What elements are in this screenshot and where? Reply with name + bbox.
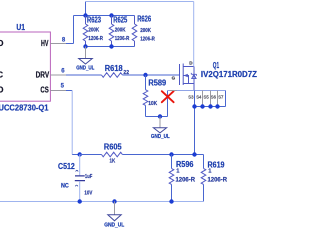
capacitor C512 bottom lead: [79, 181, 81, 202]
node bottom rail / C512: [78, 199, 82, 203]
transistor Q1 channel bar: [182, 64, 184, 86]
wire HV pin to riser: [66, 43, 74, 45]
svg-text:R618: R618: [105, 64, 123, 73]
svg-text:O: O: [0, 86, 3, 95]
node C512 top: [78, 152, 82, 156]
pin stub S6: [217, 91, 219, 106]
resistor R618: [102, 73, 123, 78]
node S3 rail: [192, 104, 196, 108]
wire riser to top edge: [85, 2, 87, 16]
svg-text:CS: CS: [40, 86, 49, 95]
node bottom rail / ground: [112, 199, 116, 203]
svg-text:5: 5: [61, 84, 65, 90]
wire top edge horizontal: [86, 1, 194, 3]
wire CS vertical drop: [71, 91, 73, 155]
node S4 rail: [200, 104, 204, 108]
svg-text:HV: HV: [41, 39, 49, 48]
transistor Q1 body stub with arrow: [183, 76, 188, 84]
svg-text:1uF: 1uF: [85, 174, 93, 180]
svg-text:1206-R: 1206-R: [176, 177, 196, 183]
svg-text:1206-R: 1206-R: [140, 37, 155, 43]
transistor Q1 source stub: [183, 83, 194, 85]
ground GND_UL under resistors: [85, 47, 87, 59]
svg-text:R589: R589: [148, 79, 166, 88]
svg-text:R605: R605: [104, 143, 122, 152]
cap mark lower: [75, 185, 78, 186]
node bottom rail / R596: [169, 199, 173, 203]
wire source column down: [194, 91, 196, 155]
svg-text:200K: 200K: [140, 28, 151, 34]
ground GND_UL mid: [159, 117, 161, 128]
capacitor C512 plates: [75, 176, 85, 181]
wire source pins bottom rail: [195, 106, 226, 108]
wire mid rail to R605: [80, 154, 102, 156]
resistor R589: [145, 75, 147, 90]
svg-text:1206-R: 1206-R: [88, 36, 103, 42]
ground GND_UL bottom: [114, 202, 116, 215]
wire CS corner to C512 node: [72, 154, 80, 156]
node mid rail / R596: [169, 152, 173, 156]
svg-text:GND_UL: GND_UL: [104, 223, 125, 229]
svg-text:200K: 200K: [115, 27, 126, 33]
svg-text:1206-R: 1206-R: [115, 36, 130, 42]
wire source bus: [168, 90, 226, 92]
body diode of Q1: [191, 73, 196, 79]
svg-text:U1: U1: [16, 23, 25, 32]
IC U1 UCC28730-Q1 body: [0, 32, 50, 101]
wire drain vertical to top: [193, 2, 195, 67]
wire source pins right edge: [225, 91, 227, 107]
svg-text:S6: S6: [211, 94, 217, 99]
node R589 / ground / source branch: [158, 114, 162, 118]
resistor R625: [111, 16, 113, 25]
svg-text:NC: NC: [61, 183, 69, 190]
svg-text:DRV: DRV: [36, 70, 50, 79]
svg-text:UCC28730-Q1: UCC28730-Q1: [0, 103, 49, 112]
pin 8 stub (HV): [50, 43, 66, 45]
wire R618 to gate: [122, 74, 179, 76]
svg-text:R623: R623: [87, 15, 101, 24]
svg-text:Q1: Q1: [213, 61, 220, 70]
svg-text:S4: S4: [196, 94, 202, 99]
svg-text:D: D: [189, 60, 193, 65]
node gate / R589: [143, 73, 147, 77]
resistor R605: [102, 152, 123, 157]
pin stub S5: [210, 91, 212, 106]
no-connect X mark: [162, 91, 174, 102]
wire R605 to right rail: [122, 154, 203, 156]
svg-text:O: O: [0, 39, 3, 48]
node mid rail / source column: [192, 152, 196, 156]
wire CS to corner: [66, 90, 72, 92]
pin stub S4: [202, 91, 204, 106]
svg-text:GND_UL: GND_UL: [151, 134, 170, 140]
transistor Q1 drain stub: [183, 66, 194, 68]
transistor Q1 gate bar: [179, 64, 181, 85]
svg-text:C: C: [0, 70, 3, 79]
pin 6 stub (DRV): [50, 74, 66, 76]
svg-text:8: 8: [62, 38, 66, 44]
wire riser to top rail: [73, 16, 75, 44]
resistor R626: [134, 16, 136, 25]
wire top rail: [74, 15, 135, 17]
svg-text:200K: 200K: [88, 27, 99, 33]
node top rail / R623: [83, 13, 87, 17]
wire bottom rail: [0, 201, 204, 203]
node S6 rail: [215, 104, 219, 108]
wire rail drop to R619: [203, 155, 205, 169]
svg-text:S3: S3: [188, 94, 194, 99]
svg-text:R626: R626: [137, 15, 151, 24]
svg-text:S5: S5: [204, 94, 210, 99]
pin stub S1/S2 over bus: [170, 90, 177, 92]
svg-text:S7: S7: [218, 94, 224, 99]
resistor R596: [171, 155, 173, 169]
transistor Q1 vertical drain-source line: [193, 67, 195, 91]
svg-text:10K: 10K: [148, 101, 158, 107]
resistor R619: [201, 168, 206, 184]
node bottom rail / R625: [109, 44, 113, 48]
svg-text:GND_UL: GND_UL: [76, 65, 95, 71]
svg-text:10V: 10V: [84, 191, 92, 197]
capacitor C512 top lead: [79, 155, 81, 176]
svg-text:IV2Q171R0D7Z: IV2Q171R0D7Z: [201, 70, 257, 79]
resistor R623: [85, 16, 87, 25]
node S5 rail: [208, 104, 212, 108]
svg-text:R625: R625: [113, 15, 127, 24]
cap mark upper: [76, 170, 79, 171]
node top rail / R625: [109, 13, 113, 17]
wire DRV to R618: [66, 74, 102, 76]
svg-text:1K: 1K: [110, 158, 116, 164]
wire bottom rail of resistors: [86, 46, 135, 48]
wire source branch vertical: [167, 91, 169, 117]
svg-text:6: 6: [61, 69, 65, 75]
node bottom rail / R623 / ground: [83, 44, 87, 48]
svg-text:G: G: [172, 76, 176, 81]
wire R589 bottom to node: [146, 116, 168, 118]
svg-text:1206-R: 1206-R: [208, 177, 228, 183]
pin 5 stub (CS): [50, 90, 66, 92]
svg-text:C512: C512: [58, 162, 75, 171]
svg-text:1: 1: [176, 169, 180, 175]
